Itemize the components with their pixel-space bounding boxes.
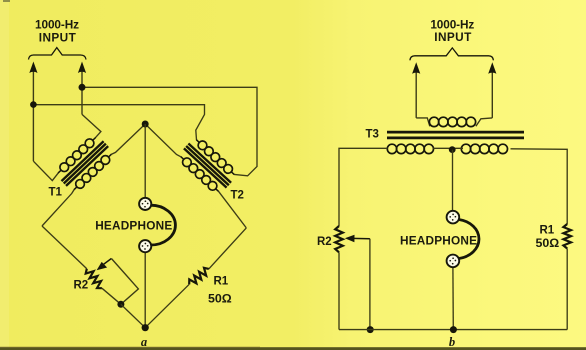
svg-text:T1: T1	[49, 187, 63, 199]
wiper arrow R2 (b)	[345, 235, 370, 243]
svg-text:R1: R1	[214, 275, 229, 287]
wire: T3 secondary center tap	[433, 147, 463, 149]
headphone (a)	[139, 198, 175, 253]
svg-text:1000-Hz: 1000-Hz	[35, 17, 79, 31]
wire: bottom rail (b)	[339, 329, 567, 331]
resistor R1 (a)	[189, 268, 209, 285]
node: headphone bottom junction (b)	[450, 326, 457, 333]
node: left input junction (a)	[30, 101, 37, 108]
inductor: T3 primary winding	[429, 117, 475, 126]
wire: wiper down to bottom (b)	[369, 239, 371, 330]
node: R2 wiper junction	[117, 301, 124, 308]
transformer T1	[53, 132, 117, 195]
node: bridge top junction	[142, 121, 149, 128]
wire: R2 to bottom wire (b)	[338, 252, 340, 329]
resistor R2 (a)	[86, 269, 102, 289]
wire: T2 secondary to right vertex	[219, 191, 247, 228]
wire: left arrow to T3 primary	[416, 118, 430, 126]
transformer T2	[175, 134, 239, 197]
svg-text:R2: R2	[74, 280, 89, 292]
wire: center tap to headphone (b)	[452, 150, 454, 211]
brace (b)	[410, 48, 494, 60]
resistor R1 (b)	[563, 224, 571, 249]
svg-text:b: b	[449, 335, 455, 349]
svg-text:INPUT: INPUT	[434, 30, 472, 44]
label: 1000-Hz INPUT (b)	[430, 17, 474, 44]
bottom strip tint	[0, 347, 260, 348]
svg-text:a: a	[141, 335, 147, 349]
inductor: T3 secondary right half	[461, 144, 507, 153]
wire: headphone to bottom wire (b)	[452, 267, 454, 329]
wire: bridge top node to T2 secondary	[145, 124, 181, 157]
brace (a)	[29, 48, 87, 60]
wire: R1 to bottom wire (b)	[566, 249, 568, 330]
svg-text:R1: R1	[540, 224, 555, 236]
resistor R2 (b)	[335, 226, 343, 252]
svg-text:50Ω: 50Ω	[536, 236, 560, 250]
wire: headphone to bottom vertex (a)	[144, 252, 146, 328]
node: bottom vertex (a)	[142, 324, 149, 331]
input terminal arrow right (a)	[78, 62, 86, 115]
wire: R2 to wiper node	[102, 288, 121, 304]
svg-text:T3: T3	[366, 129, 379, 141]
wire: T1 secondary to left vertex	[42, 190, 74, 227]
wire: bridge top node to T1 secondary	[111, 124, 145, 154]
left pale edge	[0, 0, 9, 350]
svg-text:HEADPHONE: HEADPHONE	[400, 234, 477, 248]
wire: left input node to T2 primary (upper horizontal)	[33, 105, 204, 140]
headphone (b)	[447, 211, 479, 267]
wiper arrow R2 (a)	[97, 259, 112, 271]
wire: right arrow to T3 primary	[476, 118, 492, 126]
svg-text:HEADPHONE: HEADPHONE	[95, 218, 172, 232]
wire: wiper node to bottom vertex	[121, 304, 145, 327]
svg-text:50Ω: 50Ω	[208, 292, 232, 306]
wire: left vertex to R2	[42, 226, 87, 269]
node: wiper junction (b)	[367, 326, 374, 333]
svg-text:INPUT: INPUT	[39, 30, 77, 44]
wire: right input down to T1 primary	[82, 114, 101, 137]
svg-text:T2: T2	[231, 190, 244, 202]
node: center tap junction	[449, 146, 456, 153]
transformer T3 core	[387, 132, 524, 138]
wire: right input node to T2 primary (top horizontal)	[82, 87, 257, 176]
wire: T3 secondary left to R2 branch	[339, 148, 388, 226]
input terminal arrow right (b)	[488, 62, 496, 118]
label: 1000-Hz INPUT (a)	[35, 17, 79, 44]
wire: R1 to bottom vertex	[145, 284, 189, 327]
top-left dark smudge	[3, 0, 10, 2]
wire: T3 secondary right to R1 branch	[511, 149, 568, 224]
input terminal arrow left (a)	[29, 62, 37, 162]
input terminal arrow left (b)	[412, 62, 420, 118]
wire: right vertex to R1	[209, 228, 247, 269]
svg-text:1000-Hz: 1000-Hz	[430, 17, 474, 31]
bottom dark strip	[0, 347, 586, 350]
node: right input junction (a)	[79, 84, 86, 91]
wire: top node to headphone (a)	[144, 124, 146, 198]
svg-text:R2: R2	[317, 236, 332, 248]
wire: wiper loop to lower node	[111, 259, 138, 305]
inductor: T3 secondary left half	[387, 144, 433, 153]
wire: left input down to T1 primary	[33, 161, 58, 180]
